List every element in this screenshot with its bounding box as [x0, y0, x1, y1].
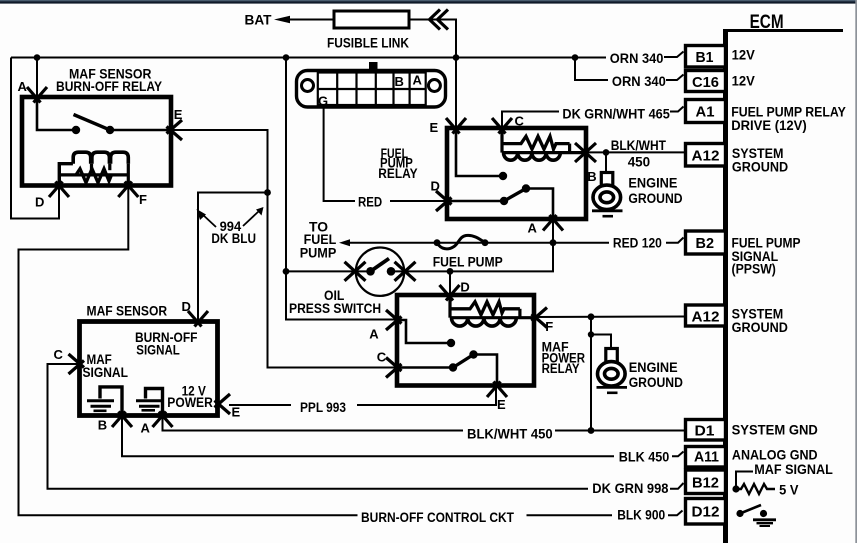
svg-text:A1: A1 [696, 104, 715, 121]
junction engine ground 2 tap [588, 331, 594, 337]
svg-text:A12: A12 [692, 148, 720, 165]
wire bus down to K3 pin A [286, 58, 397, 320]
K3 switch blade [453, 355, 474, 368]
svg-text:F: F [545, 319, 553, 334]
svg-text:5 V: 5 V [779, 483, 798, 498]
ECM pin box A12 second [686, 305, 726, 326]
svg-text:ENGINE: ENGINE [629, 360, 678, 375]
wire PPL 993 left [229, 404, 291, 406]
junction B12 tap [732, 485, 739, 492]
svg-text:FUEL PUMP: FUEL PUMP [433, 255, 503, 270]
wire BLK900 stub to D12 [668, 511, 683, 516]
svg-text:D12: D12 [692, 504, 720, 521]
svg-text:PRESS SWITCH: PRESS SWITCH [289, 301, 381, 316]
ECM pin box D12 [686, 499, 726, 525]
K2 resistor [502, 136, 570, 149]
junction bus/K1-A [34, 54, 41, 61]
resistor 5V pull-up [736, 484, 775, 494]
svg-text:GROUND: GROUND [732, 320, 789, 335]
svg-text:PPL 993: PPL 993 [300, 400, 346, 415]
svg-text:BURN-OFF RELAY: BURN-OFF RELAY [56, 79, 162, 94]
svg-text:SIGNAL: SIGNAL [83, 365, 129, 380]
connector C100 bulkhead [297, 62, 446, 107]
svg-text:C: C [54, 347, 64, 362]
svg-text:BLK/WHT 450: BLK/WHT 450 [467, 427, 553, 442]
pin arrow K3-E [487, 382, 507, 398]
wire BLK 900 [527, 514, 613, 516]
svg-text:A: A [18, 79, 28, 94]
junction bus/K3 feed [283, 54, 290, 61]
wire K3-F to A12b [534, 316, 685, 319]
relay K2 FUEL PUMP RELAY box [447, 128, 586, 219]
K2 switch contacts [499, 172, 507, 180]
K2 coil [502, 128, 586, 153]
svg-text:B1: B1 [696, 49, 714, 66]
junction bus/ORN drop [572, 54, 579, 61]
wire node 994 to U1 pin D [198, 193, 268, 322]
pin arrow K3-F [532, 308, 548, 328]
K1 switch contacts [72, 126, 80, 134]
svg-text:RED: RED [358, 194, 382, 209]
arrow to BAT [274, 16, 290, 23]
wire K2-B to A12 [586, 151, 685, 153]
ECM pin box B1 [686, 46, 726, 68]
K1 coil [59, 164, 73, 186]
pin arrow K2-B [575, 143, 596, 162]
wire to K3 pin D [449, 271, 451, 295]
wire C100-G to RED [324, 107, 355, 201]
wire bus to K1 pin D [11, 58, 59, 219]
svg-text:450: 450 [628, 154, 651, 169]
svg-text:DK BLU: DK BLU [211, 231, 256, 246]
svg-text:MAF SENSOR: MAF SENSOR [87, 304, 168, 319]
pin arrow K1-A [27, 87, 47, 103]
wire ORN340 stub to B1 [664, 52, 684, 58]
fuel pump feed splice wave [437, 235, 485, 249]
wire K2-C to DK GRN/WHT 465 [502, 112, 559, 129]
svg-text:SYSTEM GND: SYSTEM GND [732, 423, 818, 438]
pin arrow K3-C [386, 358, 402, 378]
pin arrow K1-D [49, 182, 69, 198]
splice chevrons [430, 10, 449, 30]
svg-text:A: A [413, 73, 423, 88]
svg-text:BLK/WHT: BLK/WHT [611, 138, 667, 153]
relay K1 MAF SENSOR BURN-OFF RELAY box [22, 97, 171, 186]
svg-text:GROUND: GROUND [629, 375, 683, 390]
junction bus/fusible link [453, 54, 460, 61]
svg-text:D: D [35, 195, 44, 210]
svg-text:C: C [377, 350, 387, 365]
wire U1-C DK GRN 998 [48, 364, 589, 489]
svg-text:BLK 450: BLK 450 [619, 450, 670, 465]
ECM pin box A1 [686, 100, 726, 123]
svg-text:RED 120: RED 120 [613, 236, 662, 251]
ground U1-B [100, 387, 122, 416]
svg-text:ECM: ECM [750, 12, 784, 33]
svg-text:ENGINE: ENGINE [628, 176, 677, 191]
wire oil switch to bus drop [286, 270, 370, 272]
svg-text:C16: C16 [692, 74, 719, 91]
burn-off driver switch blade [740, 505, 761, 514]
wire RED to K2 pin D [390, 200, 447, 202]
pin arrow K1-F [118, 182, 138, 198]
pin arrow K2-A [543, 215, 563, 231]
svg-text:DK GRN 998: DK GRN 998 [592, 481, 669, 496]
svg-text:12V: 12V [732, 74, 755, 89]
wire node 994 to K3 pin C [268, 193, 398, 368]
svg-text:D: D [182, 299, 191, 314]
svg-text:SIGNAL: SIGNAL [136, 343, 180, 358]
ECM pin box B12 [686, 470, 726, 494]
pin arrow U1-C [69, 354, 85, 374]
K3 switch wiring [397, 320, 497, 386]
svg-text:ORN 340: ORN 340 [610, 51, 664, 66]
pin arrow K2-C [492, 118, 512, 134]
wire bus to K2 pin E [455, 58, 457, 129]
junction bus drop/oil switch [283, 268, 290, 275]
svg-text:E: E [174, 107, 183, 122]
K1 resistor [76, 169, 112, 183]
wire down to engine ground 1 [605, 152, 607, 172]
ECM body line [723, 31, 728, 543]
wire BAT feed [290, 19, 334, 21]
wire bus to K1 pin A [36, 58, 38, 98]
wire main 12V bus [11, 57, 606, 59]
svg-text:F: F [139, 192, 147, 207]
wire BLK450 stub to A11 [672, 452, 684, 457]
oil pressure switch S1 [356, 248, 404, 296]
pin arrow K2-E [446, 118, 466, 134]
wire PPL 993 to K3-E [357, 386, 496, 405]
pin arrow K3-A [386, 310, 402, 330]
MAF signal tap elbow [736, 472, 753, 490]
pin arrow U1-A [153, 412, 173, 428]
svg-text:MAF SIGNAL: MAF SIGNAL [754, 462, 833, 477]
svg-text:D: D [431, 178, 440, 193]
svg-text:ORN 340: ORN 340 [612, 74, 666, 89]
wire RED to oil press switch [391, 243, 553, 272]
svg-text:B: B [395, 74, 404, 89]
junction RED/K2-A [550, 239, 557, 246]
wire U1-A BLK/WHT 450 [163, 416, 464, 431]
K2 switch wiring [447, 128, 553, 219]
fusible link F1 [334, 11, 409, 28]
K3 coil [450, 295, 534, 318]
K2 switch blade [504, 189, 526, 202]
svg-text:A: A [369, 327, 379, 342]
callout arrows 994 DK BLU [202, 211, 260, 227]
pin arrow K2-D [436, 191, 452, 211]
wire stub to A1 [670, 107, 684, 112]
wire K2-A down to RED 120 [552, 219, 554, 243]
connector X S1 left [345, 262, 366, 281]
svg-text:E: E [232, 405, 241, 420]
pin arrow U1-B [112, 412, 132, 428]
burn-off driver switch contact [736, 510, 743, 517]
connector X S1 right [395, 262, 416, 281]
wire group: feeds and bus [11, 20, 684, 320]
junction BLK/WHT engine ground [603, 149, 610, 156]
ECM header line [723, 29, 843, 32]
svg-text:E: E [497, 397, 506, 412]
svg-text:POWER: POWER [167, 395, 213, 410]
engine ground 1 [593, 173, 621, 210]
page right edge line [855, 0, 857, 543]
svg-text:E: E [430, 120, 439, 135]
pin arrow K1-E [167, 120, 183, 140]
ground U1-A [146, 389, 163, 416]
svg-text:A: A [141, 421, 151, 436]
wire bus branch to C16 [575, 58, 608, 81]
junction node 994 [264, 189, 271, 196]
MAF sensor U1 box [80, 322, 218, 416]
arrow to fuel pump [339, 239, 350, 246]
wire RED 120 [349, 242, 609, 244]
svg-text:A11: A11 [694, 449, 719, 466]
svg-text:GROUND: GROUND [628, 191, 682, 206]
svg-text:B2: B2 [696, 235, 715, 252]
wire ground drop to BLK/WHT [590, 317, 592, 431]
junction BLK/WHT ground drop [588, 427, 595, 434]
pin arrow U1-D [188, 311, 208, 327]
wire K1-F to burn-off control ckt [19, 186, 358, 516]
pin arrow K3-D [440, 285, 460, 301]
svg-text:C: C [515, 114, 525, 129]
svg-text:D1: D1 [695, 423, 715, 440]
wire U1-B BLK 450 [122, 416, 614, 457]
K1 switch blade [74, 115, 111, 131]
svg-text:B: B [98, 418, 107, 433]
ECM pin box A11 [686, 447, 726, 468]
svg-text:PUMP: PUMP [300, 246, 337, 261]
svg-text:B: B [587, 169, 596, 184]
wire stub to B2 [666, 238, 684, 243]
K3 resistor [450, 302, 520, 315]
wire K1-E to node 994 [171, 130, 268, 193]
K1 switch wiring [37, 97, 171, 130]
ECM pin box D1 [686, 420, 726, 441]
pin arrow U1-E [215, 394, 231, 414]
wire fusible link to bus corner [409, 20, 456, 58]
wire ORN340 stub to C16 [666, 75, 684, 81]
junction F/ground drop [588, 313, 595, 320]
ground at D12 [760, 510, 767, 517]
junction K3-D feed [447, 268, 454, 275]
ECM pin box A12 [686, 144, 726, 167]
K3 switch contacts [447, 339, 455, 347]
svg-text:RELAY: RELAY [378, 166, 417, 181]
svg-text:BLK 900: BLK 900 [617, 508, 665, 523]
svg-text:ANALOG GND: ANALOG GND [732, 448, 818, 463]
svg-text:BAT: BAT [245, 12, 272, 28]
svg-text:12V: 12V [732, 48, 755, 63]
svg-text:(PPSW): (PPSW) [732, 262, 776, 277]
svg-text:FUSIBLE LINK: FUSIBLE LINK [327, 36, 409, 51]
svg-text:G: G [318, 94, 328, 109]
wire DK GRN stub to B12 [670, 483, 684, 489]
svg-text:A: A [528, 221, 538, 236]
svg-text:GROUND: GROUND [732, 160, 789, 175]
wire to engine ground 2 [591, 335, 611, 349]
svg-text:A12: A12 [692, 309, 720, 326]
relay K3 MAF POWER RELAY box [397, 295, 534, 386]
svg-text:B12: B12 [692, 475, 719, 492]
svg-text:BURN-OFF CONTROL CKT: BURN-OFF CONTROL CKT [361, 510, 515, 525]
svg-text:DK GRN/WHT 465: DK GRN/WHT 465 [562, 106, 670, 121]
ECM pin box B2 [686, 231, 726, 254]
svg-text:DRIVE (12V): DRIVE (12V) [731, 118, 807, 133]
svg-text:D: D [460, 279, 469, 294]
engine ground 2 [598, 349, 626, 386]
wire BLK/WHT 450 to D1 [555, 430, 685, 432]
ECM pin box C16 [686, 71, 726, 92]
svg-text:RELAY: RELAY [542, 361, 580, 376]
